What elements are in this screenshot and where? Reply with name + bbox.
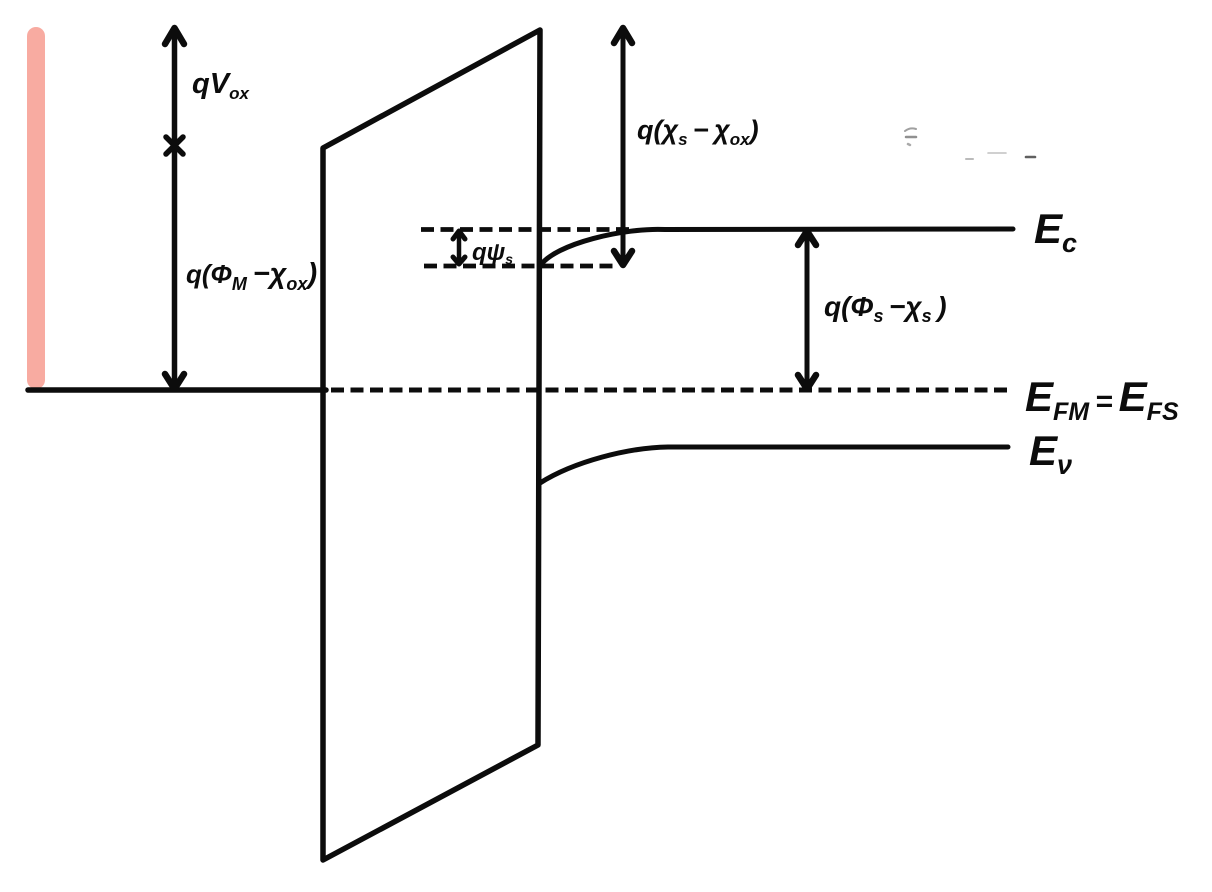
- arrowhead up (left arrow): [165, 28, 184, 44]
- X tick on left arrow: [166, 137, 183, 154]
- q(Xs - Xox) big double arrow: [621, 33, 626, 260]
- svg-text:qVox: qVox: [192, 68, 250, 103]
- svg-text:q(χs − χox): q(χs − χox): [637, 115, 759, 149]
- lower short dashed line (Ec at interface): [424, 264, 619, 269]
- pink highlighter bar: [27, 27, 45, 389]
- qVox / q(PhiM-Xox) double arrow shaft: [172, 33, 178, 385]
- svg-text:EFM = EFS: EFM = EFS: [1025, 373, 1179, 426]
- q(Phis - Xs) double arrow: [805, 236, 810, 384]
- svg-text:q(Φs −χs ): q(Φs −χs ): [824, 291, 947, 326]
- faint eraser smudge marks: [905, 128, 916, 131]
- arrowhead down (left arrow): [165, 374, 184, 389]
- Fermi level dashed line EFM=EFS: [331, 388, 1010, 393]
- metal Fermi level line (solid): [28, 387, 326, 393]
- svg-text:Ec: Ec: [1034, 205, 1077, 258]
- q psi_s small double arrow: [457, 236, 462, 260]
- svg-text:q(ΦM −χox): q(ΦM −χox): [186, 258, 317, 294]
- svg-text:qψs: qψs: [472, 239, 513, 267]
- Ec band curve: [540, 229, 1013, 266]
- svg-text:Eν: Eν: [1029, 427, 1072, 480]
- oxide band trapezoid: [323, 30, 540, 860]
- upper short dashed line (Ec surface level): [421, 227, 631, 232]
- Ev band curve: [540, 447, 1008, 483]
